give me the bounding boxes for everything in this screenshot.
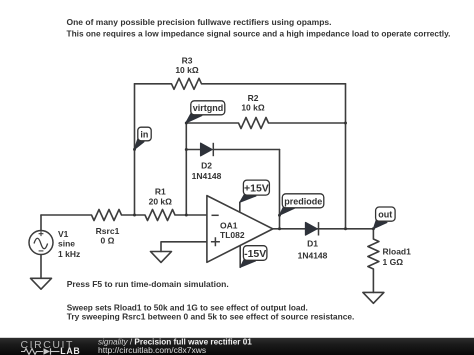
svg-text:0 Ω: 0 Ω [101, 236, 115, 246]
svg-text:One of many possible precision: One of many possible precision fullwave … [67, 17, 332, 27]
svg-text:TL082: TL082 [220, 230, 245, 240]
svg-text:This one requires a low impeda: This one requires a low impedance signal… [67, 28, 451, 38]
svg-text:OA1: OA1 [220, 220, 238, 230]
svg-text:in: in [140, 130, 148, 140]
svg-text:1N4148: 1N4148 [192, 171, 222, 181]
svg-text:10 kΩ: 10 kΩ [241, 102, 265, 112]
svg-text:1N4148: 1N4148 [298, 250, 328, 260]
svg-text:10 kΩ: 10 kΩ [175, 65, 199, 75]
svg-text:prediode: prediode [284, 196, 322, 206]
svg-text:Rload1: Rload1 [383, 246, 412, 256]
svg-text:R3: R3 [182, 55, 193, 65]
svg-text:1 GΩ: 1 GΩ [383, 257, 404, 267]
svg-text:virtgnd: virtgnd [193, 103, 224, 113]
svg-text:Press F5 to run time-domain si: Press F5 to run time-domain simulation. [67, 279, 229, 289]
svg-text:sine: sine [58, 239, 75, 249]
svg-text:Try sweeping Rsrc1 between 0 a: Try sweeping Rsrc1 between 0 and 5k to s… [67, 311, 355, 321]
svg-text:D2: D2 [201, 160, 212, 170]
svg-text:D1: D1 [307, 239, 318, 249]
svg-text:V1: V1 [58, 229, 69, 239]
svg-text:1 kHz: 1 kHz [58, 249, 80, 259]
svg-text:-15V: -15V [244, 248, 266, 260]
svg-text:out: out [378, 210, 392, 220]
svg-text:http://circuitlab.com/c8x7xws: http://circuitlab.com/c8x7xws [98, 345, 206, 355]
svg-text:LAB: LAB [60, 346, 80, 355]
svg-text:R1: R1 [155, 187, 166, 197]
svg-text:+15V: +15V [244, 183, 269, 195]
svg-text:20 kΩ: 20 kΩ [149, 196, 173, 206]
svg-text:Rsrc1: Rsrc1 [96, 226, 120, 236]
